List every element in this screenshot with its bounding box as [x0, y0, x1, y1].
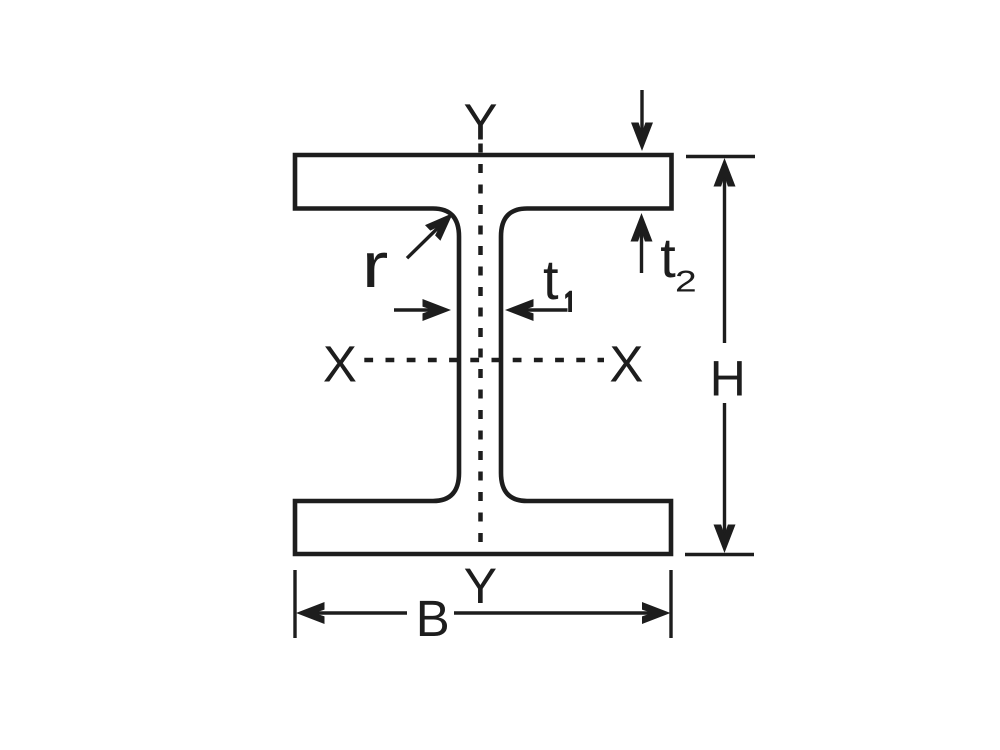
B dimension line left segment	[302, 611, 407, 614]
label Y bottom	[465, 569, 496, 603]
label r	[367, 253, 387, 287]
label subscript 1 of t1	[565, 291, 572, 312]
t2 arrow down above top flange	[640, 90, 643, 144]
r leader arrow to fillet	[407, 219, 447, 258]
label X left	[324, 346, 356, 381]
label B	[420, 601, 447, 636]
label X right	[611, 346, 643, 381]
label subscript 2 of t2	[677, 271, 695, 292]
B arrowhead right	[642, 602, 671, 624]
B dimension line right segment	[454, 611, 665, 614]
H dimension bottom extension line	[685, 553, 754, 556]
t1 left arrow pointing right at web	[394, 308, 445, 311]
Y-Y dashed centerline (vertical)	[478, 144, 483, 554]
t1 right arrow pointing left at web	[511, 308, 568, 311]
H dimension line lower segment	[723, 403, 726, 547]
I-beam cross-section outline	[295, 155, 672, 554]
B dimension right extension line	[669, 570, 672, 638]
H arrowhead up	[714, 158, 736, 187]
X-X dashed centerline (horizontal)	[364, 358, 604, 362]
H arrowhead down	[714, 525, 736, 554]
H dimension line upper segment	[723, 164, 726, 343]
label t of t1	[544, 263, 558, 300]
B arrowhead left	[296, 602, 325, 624]
t2 arrow up below top flange	[640, 219, 643, 273]
B dimension left extension line	[293, 570, 296, 638]
label Y top	[465, 104, 497, 139]
label H	[714, 361, 742, 395]
H dimension top extension line	[686, 155, 755, 158]
label t of t2	[661, 241, 675, 278]
